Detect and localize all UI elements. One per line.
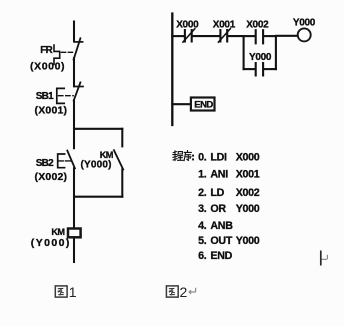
svg-text:4.: 4. [198, 220, 207, 232]
SB1 dashed link [59, 95, 74, 97]
resistor FR heater element [54, 45, 60, 64]
contact SB1 blade [74, 82, 81, 100]
wire FR to SB1 [73, 58, 75, 86]
svg-text:2: 2 [180, 284, 188, 300]
coil KM rectangle [68, 229, 81, 238]
svg-text:END: END [194, 100, 213, 111]
svg-text:LD: LD [210, 187, 224, 199]
svg-text:KM: KM [51, 227, 65, 237]
svg-text:OUT: OUT [210, 235, 232, 247]
contact FR seat tick [74, 41, 83, 43]
svg-text:KM: KM [100, 150, 114, 160]
wire branch right upper [121, 129, 123, 147]
svg-text:OR: OR [210, 203, 226, 215]
wire top feed (figure 1) [73, 22, 75, 41]
coil Y000 circle [298, 28, 311, 41]
rung1 wire X000 to X001 [193, 35, 219, 37]
contact SB1 seat tick [74, 86, 83, 88]
caption 图 (figure 2) [166, 286, 178, 297]
svg-text:1: 1 [69, 284, 77, 300]
svg-text:6.: 6. [198, 250, 207, 262]
wire branch lower left [244, 68, 255, 70]
contact SB2 blade [67, 151, 75, 169]
contact X001 NC slash [218, 29, 230, 42]
svg-text:X002: X002 [246, 20, 269, 31]
svg-text:SB2: SB2 [36, 158, 54, 169]
svg-text:Y000: Y000 [249, 52, 272, 63]
pushbutton SB2 bracket [58, 154, 65, 168]
svg-text:0.: 0. [198, 152, 207, 164]
svg-text:ANB: ANB [210, 220, 233, 232]
svg-text:1.: 1. [198, 169, 207, 181]
svg-text:X001: X001 [236, 169, 260, 181]
branch left vertical [243, 36, 245, 69]
svg-text:(Y000): (Y000) [81, 159, 112, 170]
wire branch right lower [121, 169, 123, 196]
svg-text:ANI: ANI [210, 169, 228, 181]
rung1 wire rail to X000 [172, 35, 183, 37]
wire X002 to right vertical [264, 35, 276, 37]
contact X000 NC slash [183, 29, 195, 42]
wire branch bottom [74, 196, 122, 198]
rung1 wire X001 to branch [228, 35, 243, 37]
SB2 link [58, 160, 72, 162]
wire branch top [74, 128, 122, 130]
svg-text:(X002): (X002) [35, 171, 68, 183]
svg-text:X000: X000 [236, 152, 260, 164]
svg-text:2.: 2. [198, 187, 207, 199]
svg-text:FR: FR [40, 45, 53, 56]
svg-text:(X001): (X001) [35, 105, 68, 117]
svg-text:X001: X001 [213, 20, 236, 31]
contact X000 bars [185, 30, 192, 41]
wire branch lower right [264, 68, 276, 70]
svg-text:(Y000): (Y000) [31, 237, 71, 249]
svg-text:END: END [210, 250, 232, 262]
wire below coil [73, 238, 75, 263]
END box [191, 98, 215, 111]
contact FR blade [74, 38, 81, 59]
wire SB1 to SB2 [73, 100, 75, 148]
svg-text:SB1: SB1 [36, 91, 54, 102]
svg-text:X002: X002 [236, 187, 260, 199]
contact KM blade [114, 150, 123, 169]
branch right vertical [275, 36, 277, 69]
contact X001 bars [220, 30, 227, 41]
paragraph mark right of listing [321, 251, 328, 266]
svg-text:Y000: Y000 [293, 17, 316, 28]
wire SB2 to coil [73, 168, 75, 228]
contact X002 bars [256, 30, 263, 43]
wire END rung [172, 103, 191, 105]
wire branch to X002 [244, 35, 255, 37]
pushbutton SB1 bracket [57, 88, 64, 103]
label colon [192, 155, 194, 161]
svg-text:X000: X000 [176, 20, 199, 31]
FR dashed link [62, 51, 74, 53]
contact Y000 bars [256, 63, 263, 75]
caption 图 (figure 1) [55, 286, 67, 297]
label 程 (program) [173, 151, 183, 161]
svg-text:Y000: Y000 [236, 235, 260, 247]
svg-text:Y000: Y000 [236, 203, 260, 215]
svg-text:LDI: LDI [210, 152, 227, 164]
svg-text:5.: 5. [198, 235, 207, 247]
svg-text:(X000): (X000) [30, 60, 65, 72]
label 序 [184, 151, 191, 161]
svg-text:3.: 3. [198, 203, 207, 215]
pilcrow return mark after caption 2 [189, 288, 196, 294]
left power rail (figure 2) [171, 14, 173, 126]
wire to coil Y000 [276, 35, 298, 37]
